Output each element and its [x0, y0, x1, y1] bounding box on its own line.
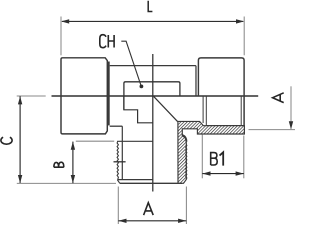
- hatched section region: [178, 121, 245, 183]
- label A right rotated: [273, 93, 284, 103]
- leader dot: [140, 85, 144, 89]
- label CH : H glyph: [108, 35, 114, 48]
- dim L left arrow: [61, 19, 69, 23]
- right port thread bore vertical right: [240, 96, 242, 126]
- fillet bulge solid: [182, 135, 186, 142]
- dim B top arrow: [71, 142, 75, 150]
- dim L left extension: [60, 17, 62, 56]
- mid body bottom edge: [110, 125, 123, 127]
- wire: horizontal centerline extension gray left: [17, 95, 46, 97]
- dim A right extension line: [249, 129, 296, 131]
- dim C top arrow: [18, 96, 22, 104]
- right port thread bore bottom line: [206, 125, 244, 127]
- dim B1 left arrow: [202, 171, 210, 175]
- male thread left profile serrated: [117, 141, 118, 180]
- wire: horizontal centerline dark: [52, 95, 259, 97]
- dim A bottom right extension: [185, 187, 187, 225]
- label L: [148, 1, 152, 12]
- right port counterbore vertical: [202, 96, 204, 123]
- dim A bottom right arrow: [178, 219, 186, 223]
- dim A right line: [290, 86, 292, 129]
- dim A right arrow: [289, 121, 293, 129]
- right port thread bore vertical left: [205, 96, 207, 126]
- diagonal section edge: [154, 97, 178, 122]
- dim C bottom extension: [17, 182, 116, 184]
- right port right edge below centerline: [243, 96, 245, 134]
- dim A bottom line: [118, 220, 186, 222]
- dim B line: [72, 142, 74, 184]
- dim C line: [19, 96, 21, 183]
- dim B1 right extension: [243, 136, 245, 179]
- label C left rotated: [1, 137, 12, 144]
- male port bottom face: [120, 182, 182, 184]
- dim B bottom arrow: [71, 175, 75, 183]
- dim L right arrow: [236, 19, 244, 23]
- dim B1 right arrow: [236, 171, 244, 175]
- left body cylinder outline: [61, 58, 107, 134]
- label CH : C glyph: [100, 35, 106, 48]
- label B1 : B glyph: [211, 153, 218, 165]
- dim A bottom left arrow: [118, 219, 126, 223]
- leader line CH: [121, 41, 141, 86]
- neck left edge and thread root line of bottom port: [121, 126, 123, 179]
- label B left rotated: [54, 162, 64, 167]
- label A bottom: [144, 203, 154, 215]
- dim B1 line: [202, 173, 244, 175]
- dim A bottom left extension: [117, 187, 119, 225]
- male thread chamfer line: [117, 179, 152, 181]
- dim L right extension: [243, 17, 245, 56]
- dim B top extension: [76, 140, 114, 142]
- dim L line: [62, 20, 243, 22]
- male thread left chamfer: [117, 180, 119, 184]
- mid body right face: [195, 66, 197, 96]
- thread limit tick: [114, 161, 126, 163]
- right port inner face line: [195, 66, 197, 96]
- internal bore staircase: [124, 96, 153, 123]
- male thread right profile serration: [186, 144, 187, 179]
- mid body top edge: [110, 65, 196, 67]
- hex outline CH: [124, 82, 180, 110]
- wire: vertical axis of bottom port: [152, 54, 154, 192]
- dim B1 left extension: [201, 135, 203, 179]
- flange thick bar: [107, 62, 109, 126]
- right port outer rect top half: [198, 58, 244, 96]
- dim C bottom arrow: [18, 175, 22, 183]
- male thread top edge: [117, 140, 153, 142]
- label B1 : 1 glyph: [220, 152, 224, 165]
